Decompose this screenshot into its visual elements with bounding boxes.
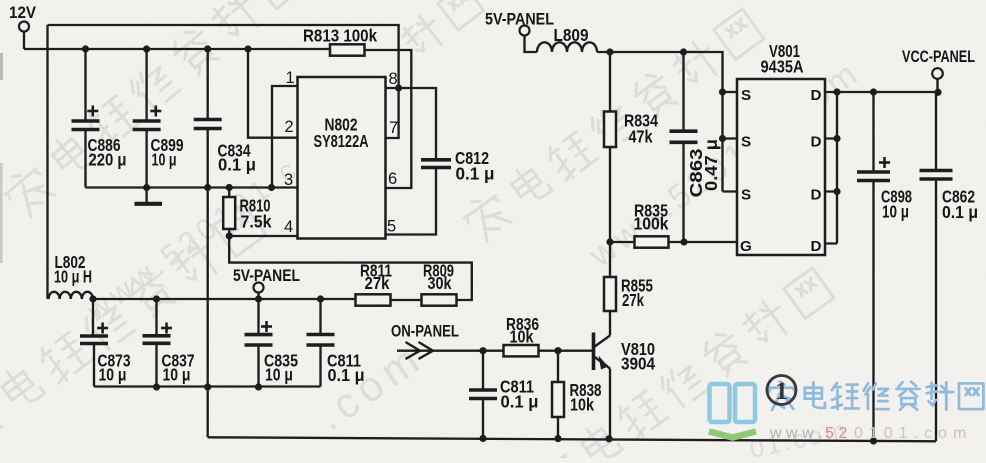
node C811b gnd [479,435,486,442]
wire pin1 rail [272,86,298,188]
svg-text:30k: 30k [428,273,452,293]
wire pin8-pin7 tie [386,88,399,138]
svg-text:S: S [741,187,751,204]
svg-text:12V: 12V [9,4,36,22]
transistor V810 3904 [594,333,656,374]
resistor R809 [422,261,457,306]
svg-text:1: 1 [286,69,295,87]
resistor R855 [604,242,653,311]
svg-text:ON-PANEL: ON-PANEL [391,323,459,341]
svg-text:0.1 μ: 0.1 μ [942,202,978,222]
node midgnd rail [204,383,211,390]
resistor R810 [223,188,272,237]
node C899 top [143,45,150,52]
node R836 left / C811b [479,347,486,354]
wire collector up [609,311,611,336]
svg-text:10 μ H: 10 μ H [54,267,92,287]
node gnd pin1 rail [268,184,275,191]
wire D bus [825,92,837,244]
node R838 top [554,347,561,354]
svg-text:D: D [811,238,822,255]
wire bottom ground bus [208,437,936,441]
svg-text:9435A: 9435A [761,57,804,77]
capacitor C899 [133,49,184,188]
wire left rail down to L802 [46,25,48,299]
capacitor C834 [194,49,256,188]
resistor R838 [552,351,602,439]
wire pin8 to C812 top [399,88,436,160]
node C898 top [870,88,877,95]
capacitor C835 [245,299,299,387]
terminal 12V [9,4,36,32]
capacitor C898 [857,92,912,441]
terminal 5V-PANEL bottom [233,267,300,299]
node R834 top [606,48,613,55]
logo circled 1 [767,376,796,406]
svg-text:www.: www. [769,425,826,442]
svg-text:47k: 47k [629,127,653,147]
wire S stubs [723,92,738,192]
svg-text:27k: 27k [622,290,644,310]
wire emitter down [609,369,611,439]
wire 12V bus [24,48,330,50]
node emitter gnd [605,435,612,442]
svg-text:10k: 10k [510,327,534,347]
svg-text:0.1 μ: 0.1 μ [501,392,539,412]
node D2 [833,135,840,142]
wire pin4 feedback route [229,236,472,300]
svg-text:SY8122A: SY8122A [314,131,369,151]
svg-text:7: 7 [389,119,398,137]
wire gnd rail to bottom bus [207,387,209,437]
terminal ON-PANEL arrow [391,323,483,360]
node gnd R810 [226,184,233,191]
node R810 bottom [226,232,233,239]
svg-text:10 μ: 10 μ [152,150,177,170]
wire 12V terminal to bus [23,32,25,50]
wire 5V bus [93,298,356,300]
resistor R813 [303,26,377,56]
capacitor C873 [80,299,131,387]
svg-text:10 μ: 10 μ [265,365,293,385]
logo book icon [709,384,756,438]
node midgnd C835 [255,383,262,390]
svg-text:D: D [811,134,822,151]
svg-text:0.1 μ: 0.1 μ [218,155,256,175]
svg-text:10 μ: 10 μ [163,365,191,385]
node gnd C899 [143,184,150,191]
resistor R811 [356,261,393,306]
svg-text:220 μ: 220 μ [89,150,127,170]
node D3 [833,188,840,195]
logo url [769,425,972,442]
svg-text:D: D [811,187,822,204]
node pin8 [395,84,402,91]
svg-text:5: 5 [387,218,396,236]
wire SW top route [48,25,399,88]
node VCC terminal [934,89,941,96]
svg-text:5V-PANEL: 5V-PANEL [485,11,554,29]
capacitor C837 [143,299,195,387]
inductor L802 [49,252,93,299]
node midgnd C837 [153,383,160,390]
node C811 top [317,295,324,302]
wire L809 to S pins [597,52,723,192]
svg-text:6: 6 [388,170,397,188]
node C837 top [153,295,160,302]
svg-text:VCC-PANEL: VCC-PANEL [902,48,975,66]
node pin2 feed [244,45,251,52]
svg-text:G: G [740,238,752,255]
svg-text:2: 2 [285,118,294,136]
node gate C863 [680,238,687,245]
svg-text:100k: 100k [634,214,669,234]
resistor R835 [634,201,669,248]
capacitor C886 [72,49,127,188]
node D1 [833,88,840,95]
wire pin2 to 12V bus [248,49,298,138]
node gate R834/R855 [606,238,613,245]
resistor R836 [504,314,540,356]
node L802/C873 [89,295,96,302]
svg-text:0.47 μ: 0.47 μ [701,139,721,191]
svg-text:0.1 μ: 0.1 μ [456,164,495,184]
svg-text:10 μ: 10 μ [882,202,909,222]
svg-text:L809: L809 [554,25,589,45]
svg-text:7.5k: 7.5k [241,212,272,232]
svg-text:R813 100k: R813 100k [303,26,377,46]
svg-text:10k: 10k [570,395,594,415]
svg-text:S: S [741,134,751,151]
wire mid ground line [94,385,321,387]
wire R813 right to pin6 [365,50,412,188]
ground symbol [135,188,163,204]
svg-text:0101.com: 0101.com [854,425,972,442]
svg-text:3: 3 [284,171,293,189]
node C863 top [680,48,687,55]
node gnd C834 [204,184,211,191]
terminal VCC-PANEL [902,48,975,92]
node S1 [719,88,726,95]
node S2 [719,135,726,142]
svg-text:3904: 3904 [621,354,655,374]
capacitor C811 (2nd) [469,351,539,439]
svg-text:5V-PANEL: 5V-PANEL [233,267,300,285]
terminal 5V-PANEL top [485,11,554,36]
svg-text:52: 52 [825,425,852,442]
capacitor C811 [307,299,365,387]
wire gnd rail down (C834 column) [207,188,209,388]
svg-text:D: D [811,87,822,104]
svg-text:0.1 μ: 0.1 μ [328,365,365,385]
svg-text:4: 4 [284,218,293,236]
inductor L809 [525,25,598,52]
node C835/terminal [255,295,262,302]
svg-text:S: S [741,87,751,104]
node R838 gnd [554,435,561,442]
svg-text:27k: 27k [365,273,390,293]
wire R811-R809 [391,299,422,301]
wire VCC line [837,91,938,93]
svg-text:1: 1 [775,378,788,405]
capacitor C863 [670,52,722,242]
capacitor C812 [386,148,495,235]
wire gate line [610,241,737,243]
logo text chinese [768,382,795,410]
IC N802 SY8122A [298,77,386,239]
node C886 top [82,45,89,52]
resistor R834 [604,52,658,242]
node C898 gnd [870,437,877,444]
svg-text:10 μ: 10 μ [99,365,127,385]
MOSFET V801 9435A [737,41,825,255]
node C834 top [204,45,211,52]
ground bus (pin 3) [86,186,298,188]
capacitor C862 [920,92,979,441]
